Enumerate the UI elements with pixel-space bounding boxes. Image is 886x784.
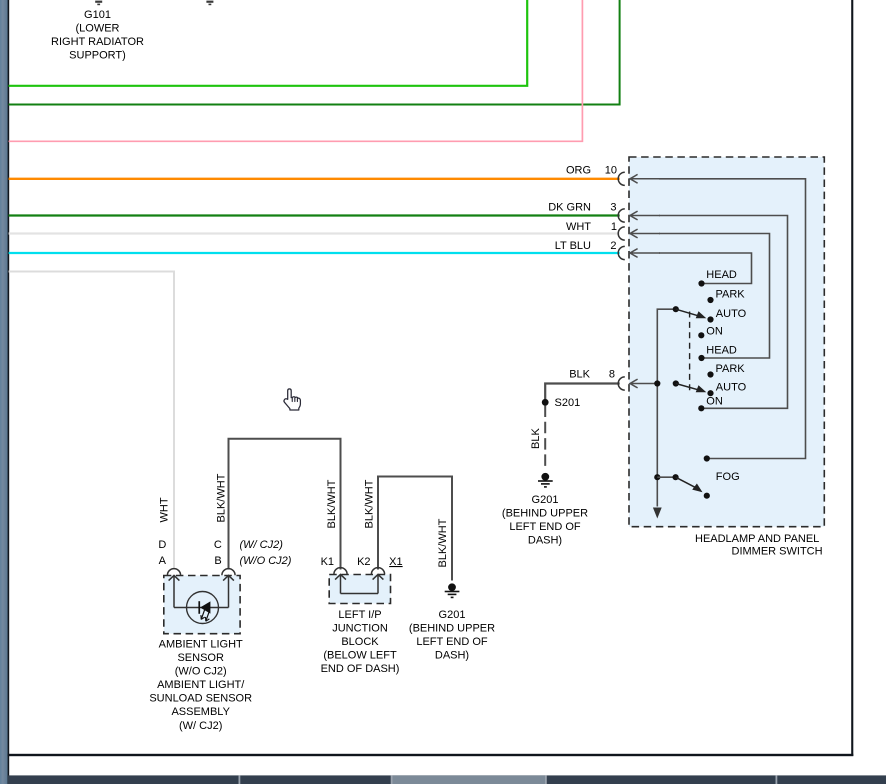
wire BLK dashed S201 to G201 <box>544 406 546 471</box>
upper section contact PARK <box>707 297 713 303</box>
svg-text:(BELOW LEFT: (BELOW LEFT <box>323 649 397 661</box>
svg-text:ASSEMBLY: ASSEMBLY <box>171 706 230 718</box>
sensor terminal arrow A <box>169 575 180 607</box>
svg-text:BLOCK: BLOCK <box>341 636 379 648</box>
svg-text:K2: K2 <box>357 556 370 568</box>
FOG output contact <box>704 455 710 461</box>
lower section contact ON <box>698 405 704 411</box>
svg-text:ON: ON <box>706 325 723 337</box>
svg-text:1: 1 <box>611 221 617 233</box>
FOG lever feed wire <box>657 476 675 478</box>
svg-text:(W/O CJ2): (W/O CJ2) <box>240 555 292 567</box>
svg-text:DIMMER SWITCH: DIMMER SWITCH <box>732 546 823 558</box>
pin 10 arrow into switch <box>630 174 660 183</box>
svg-text:DASH): DASH) <box>435 649 469 661</box>
ground G201 (right) <box>538 473 553 488</box>
upper section contact HEAD <box>698 280 704 286</box>
node G201 (right) label <box>502 494 588 547</box>
svg-text:RIGHT RADIATOR: RIGHT RADIATOR <box>51 36 144 48</box>
node G201 (left) label <box>409 609 495 662</box>
svg-text:BLK/WHT: BLK/WHT <box>216 473 228 522</box>
svg-text:A: A <box>159 555 167 567</box>
upper switch lever arm <box>676 309 700 316</box>
svg-text:G201: G201 <box>532 494 559 506</box>
connector arc pin 10 <box>618 172 625 185</box>
wire GRN bright (to G101) <box>9 0 528 86</box>
svg-text:B: B <box>214 555 221 567</box>
svg-text:LEFT END OF: LEFT END OF <box>416 636 488 648</box>
upper section contact ON <box>698 332 704 338</box>
svg-text:WHT: WHT <box>566 221 591 233</box>
svg-text:(LOWER: (LOWER <box>76 23 120 35</box>
lower switch lever pivot <box>673 380 679 386</box>
sensor terminal arrow B <box>223 575 234 607</box>
svg-text:10: 10 <box>605 164 617 176</box>
svg-text:BLK: BLK <box>569 368 590 380</box>
lower section contact HEAD <box>698 355 704 361</box>
wire ORG to pin 10 <box>9 178 620 180</box>
ground G101 symbol stub 2 (cut off at top) <box>206 1 213 6</box>
pin 1 arrow into switch <box>630 229 660 238</box>
drawing frame left border <box>8 0 10 784</box>
mechanical linkage dashed <box>689 312 691 395</box>
switch internal common bus wire <box>657 309 676 506</box>
wire BLK from splice S201 to pin 8 <box>545 384 620 403</box>
switch internal wire pin 2 to upper HEAD contact <box>659 253 752 284</box>
switch internal wire pin 3 to lower ON contact <box>659 216 788 409</box>
switch internal wire pin 1 to lower HEAD contact <box>659 234 770 359</box>
left I/P junction block box <box>329 575 390 604</box>
FOG lever pivot <box>673 474 679 480</box>
svg-text:G201: G201 <box>439 609 466 621</box>
connector arc pin 8 <box>618 377 625 390</box>
connector arc pin 3 <box>618 209 625 222</box>
svg-text:AMBIENT LIGHT: AMBIENT LIGHT <box>159 638 243 650</box>
svg-text:K1: K1 <box>321 556 334 568</box>
svg-text:(W/ CJ2): (W/ CJ2) <box>179 720 222 732</box>
FOG lever junction on bus <box>654 474 660 480</box>
left I/P junction block caption <box>321 609 400 675</box>
svg-text:PARK: PARK <box>716 289 746 301</box>
upper switch lever pivot <box>673 306 679 312</box>
svg-text:SENSOR: SENSOR <box>177 652 224 664</box>
wire WHT to pin 1 <box>9 232 620 234</box>
lower lever junction on BLK feed <box>654 380 660 386</box>
svg-text:HEADLAMP AND PANEL: HEADLAMP AND PANEL <box>695 533 819 545</box>
svg-text:8: 8 <box>609 368 615 380</box>
svg-text:HEAD: HEAD <box>706 269 737 281</box>
junction terminal arrow K1 <box>335 574 346 593</box>
splice S201 <box>542 399 549 406</box>
wire through photodiode <box>174 607 229 609</box>
svg-text:DK GRN: DK GRN <box>548 202 591 214</box>
upper section contact AUTO <box>707 316 713 322</box>
ambient light sensor box <box>164 576 240 634</box>
FOG switch lever arm <box>676 477 697 488</box>
junction terminal arc K1 <box>334 568 347 575</box>
svg-text:BLK/WHT: BLK/WHT <box>326 479 338 528</box>
lower section contact PARK <box>707 371 713 377</box>
sensor terminal arc A <box>167 569 180 576</box>
svg-text:(BEHIND UPPER: (BEHIND UPPER <box>502 508 588 520</box>
headlamp and panel dimmer switch box U1 <box>629 157 824 527</box>
ground G101 symbol stub 1 (cut off at top) <box>95 1 102 6</box>
svg-text:AMBIENT LIGHT/: AMBIENT LIGHT/ <box>157 679 245 691</box>
wire DK GRN to pin 3 <box>9 214 620 216</box>
svg-text:X1: X1 <box>389 556 402 568</box>
bus continuation arrow down <box>653 508 662 519</box>
FOG lever contact <box>704 493 710 499</box>
junction terminal arc K2 <box>371 568 384 575</box>
svg-text:END OF DASH): END OF DASH) <box>321 663 400 675</box>
svg-text:LEFT END OF: LEFT END OF <box>509 521 581 533</box>
svg-text:WHT: WHT <box>159 497 171 522</box>
svg-text:(W/ CJ2): (W/ CJ2) <box>240 539 284 551</box>
pin 3 arrow into switch <box>630 211 660 220</box>
svg-text:AUTO: AUTO <box>716 381 747 393</box>
svg-text:ORG: ORG <box>566 164 591 176</box>
drawing frame right border <box>851 0 853 756</box>
svg-text:DASH): DASH) <box>528 535 562 547</box>
wire PNK <box>9 0 583 141</box>
pin 8 arrow into switch <box>630 379 657 388</box>
drawing frame bottom border <box>8 754 854 756</box>
junction bus bar <box>341 593 379 595</box>
photodiode circle <box>187 592 219 624</box>
svg-text:JUNCTION: JUNCTION <box>332 622 388 634</box>
connector arc pin 1 <box>618 227 625 240</box>
switch internal wire pin 10 to FOG contact <box>659 179 806 459</box>
svg-text:G101: G101 <box>84 9 111 21</box>
photodiode symbol <box>198 601 210 621</box>
svg-text:LT BLU: LT BLU <box>555 240 591 252</box>
svg-text:ON: ON <box>706 396 723 408</box>
svg-text:BLK/WHT: BLK/WHT <box>364 479 376 528</box>
wire BLK/WHT junction K2 to G201 <box>378 477 452 581</box>
svg-text:PARK: PARK <box>716 363 746 375</box>
svg-text:S201: S201 <box>555 397 581 409</box>
svg-text:C: C <box>214 539 222 551</box>
svg-text:SUPPORT): SUPPORT) <box>69 50 126 62</box>
svg-text:3: 3 <box>610 202 616 214</box>
svg-text:(BEHIND UPPER: (BEHIND UPPER <box>409 622 495 634</box>
bottom toolbar <box>8 775 886 784</box>
svg-text:(W/O CJ2): (W/O CJ2) <box>175 666 227 678</box>
node G101 label <box>51 9 144 62</box>
svg-text:LEFT I/P: LEFT I/P <box>338 609 381 621</box>
lower section contact AUTO <box>707 390 713 396</box>
svg-text:BLK: BLK <box>530 428 542 449</box>
wire BLK/WHT sensor C/B to junction K1 <box>229 439 341 570</box>
svg-text:BLK/WHT: BLK/WHT <box>437 518 449 567</box>
ground G201 (left) <box>445 583 460 598</box>
lower switch lever arm <box>676 384 700 391</box>
svg-text:HEAD: HEAD <box>706 345 737 357</box>
wire WHT to ambient light sensor terminal A <box>9 272 174 570</box>
svg-text:FOG: FOG <box>716 471 740 483</box>
svg-text:2: 2 <box>610 240 616 252</box>
pin 2 arrow into switch <box>630 249 660 258</box>
ambient light sensor caption <box>149 638 252 731</box>
wire DK GRN upper (to G101) <box>9 0 620 105</box>
junction terminal arrow K2 <box>373 574 384 593</box>
svg-text:AUTO: AUTO <box>716 308 747 320</box>
switch caption <box>695 533 823 558</box>
svg-text:SUNLOAD SENSOR: SUNLOAD SENSOR <box>149 693 252 705</box>
wire LT BLU to pin 2 <box>9 252 620 254</box>
sensor terminal arc B <box>222 569 235 576</box>
mouse cursor <box>284 389 300 410</box>
svg-text:D: D <box>158 539 166 551</box>
connector arc pin 2 <box>618 246 625 259</box>
